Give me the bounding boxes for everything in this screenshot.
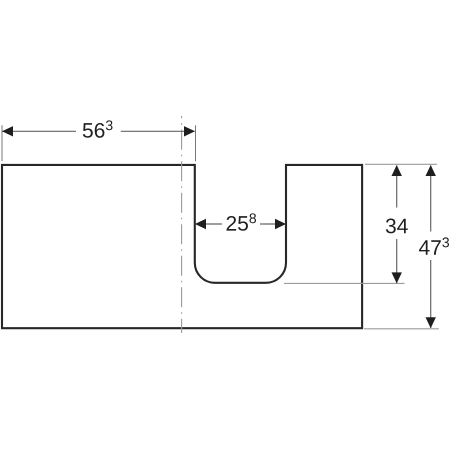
arrow bottom of dim 47.3 — [426, 317, 436, 328]
extension line right of dim 56.3 — [195, 125, 197, 161]
extension line mid right at cutout bottom (gray) — [284, 282, 405, 284]
arrow left of dim 56.3 — [2, 126, 13, 136]
extension line left of dim 56.3 — [1, 125, 3, 161]
arrow left of dim 25.8 — [195, 219, 206, 229]
arrow top of dim 34 — [392, 165, 402, 176]
countertop outline with U-shaped cutout — [2, 165, 362, 328]
centerline (dash-dot) — [181, 116, 183, 333]
extension line bottom right (gray) — [364, 328, 439, 330]
arrow right of dim 25.8 — [275, 219, 286, 229]
dimension line 47.3 upper segment — [430, 166, 432, 232]
dimension line 34 lower segment — [396, 239, 398, 283]
dimension line 25.8 right stub — [260, 223, 286, 225]
arrow right of dim 56.3 — [184, 126, 195, 136]
label 34 — [386, 219, 408, 234]
arrow top of dim 47.3 — [426, 165, 436, 176]
dimension line 47.3 lower segment — [430, 260, 432, 328]
label 56^3 — [83, 120, 113, 137]
label 25^8 — [227, 213, 256, 230]
arrow bottom of dim 34 — [392, 272, 402, 283]
dimension line 56.3 left stub — [3, 130, 77, 132]
dimension line 25.8 left stub — [196, 223, 223, 225]
dimension line 56.3 right stub — [121, 130, 195, 132]
dimension line 34 upper segment — [396, 166, 398, 208]
label 47^3 — [419, 237, 449, 254]
extension line top right (gray) — [365, 163, 437, 165]
